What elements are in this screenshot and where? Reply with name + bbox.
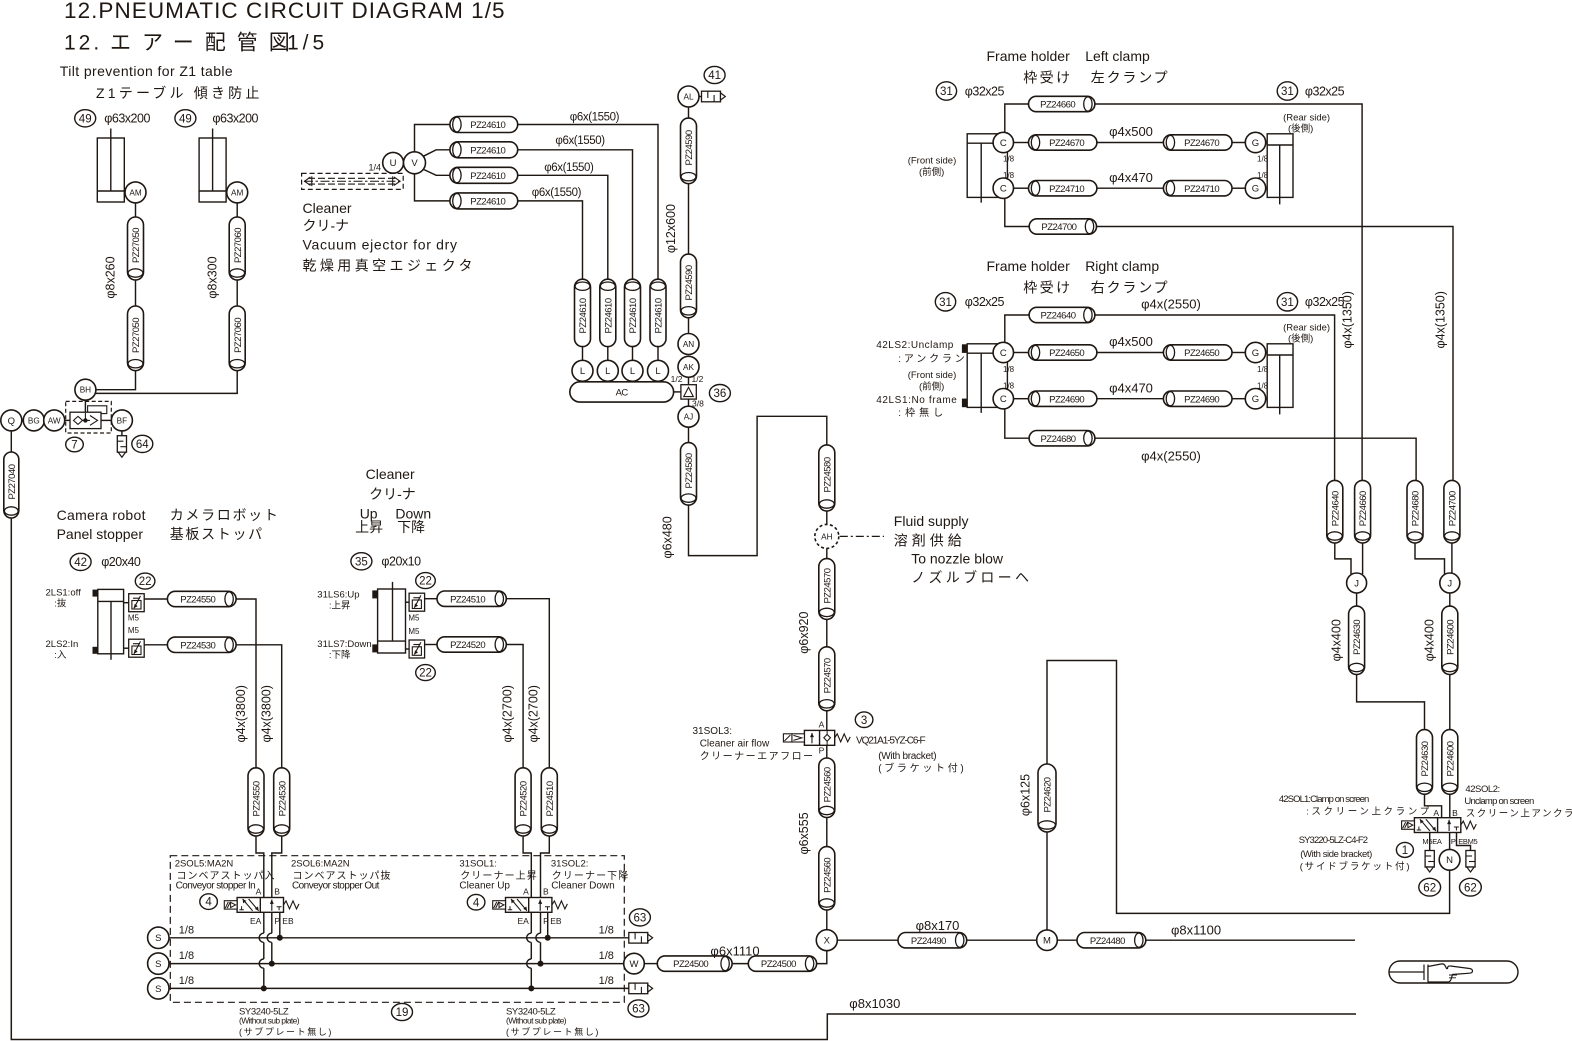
valve 31SOL3 <box>783 730 850 745</box>
tube PZ24680 <box>1029 431 1095 446</box>
wire W to PZ24500 <box>644 963 657 965</box>
svg-text:PZ24490: PZ24490 <box>911 936 946 947</box>
svg-text:φ6x480: φ6x480 <box>661 516 675 558</box>
svg-text:基板ストッパ: 基板ストッパ <box>170 526 264 542</box>
svg-text:(後側): (後側) <box>1288 333 1313 345</box>
wire PZ24650 mid <box>1097 352 1164 354</box>
junction dot P2-rail2 <box>538 961 544 967</box>
wire AW to valve 7 <box>65 419 70 421</box>
wire PZ24660 to trunk1 <box>1095 104 1362 480</box>
wire X to PZ24490 <box>837 939 898 941</box>
wire PZ24710 to G2 <box>1232 187 1245 189</box>
wire PZ24520 down <box>506 645 523 768</box>
rail 3 (EA exhaust) <box>169 987 629 989</box>
svg-text:B: B <box>1452 808 1458 818</box>
svg-text:φ6x(1550): φ6x(1550) <box>532 187 582 199</box>
wire PZ24600 straight <box>1449 675 1451 730</box>
wire PZ24690 to G2r <box>1232 398 1245 400</box>
wire Q-BG <box>22 419 24 421</box>
wire M to PZ24480 <box>1057 939 1077 941</box>
svg-text::入: :入 <box>54 650 67 661</box>
svg-text:(Rear side): (Rear side) <box>1283 323 1330 334</box>
node AL <box>678 86 699 107</box>
node AK <box>678 356 699 377</box>
svg-text:AW: AW <box>48 416 61 425</box>
svg-text:φ4x400: φ4x400 <box>1330 619 1344 661</box>
wire PZ24590 gap <box>688 184 690 254</box>
wire PZ24550v to valve A <box>256 836 264 898</box>
wire PZ24640 to C1r <box>1005 315 1029 342</box>
svg-text:Cleaner air flow: Cleaner air flow <box>700 739 770 750</box>
tube PZ27060 lower <box>229 306 245 371</box>
svg-text:A: A <box>256 887 262 897</box>
wire BH to valve 7 <box>84 400 86 413</box>
tube PZ24530 horizontal <box>167 637 236 652</box>
svg-text:クリ-ナ: クリ-ナ <box>369 486 416 502</box>
silencer 63 #2 <box>629 983 653 994</box>
svg-text:PZ24480: PZ24480 <box>1090 936 1125 947</box>
svg-text:PZ24580: PZ24580 <box>684 453 695 488</box>
wire AJ to PZ24580 <box>688 427 690 442</box>
tube PZ24500 #2 <box>748 956 816 971</box>
svg-text:PZ24560: PZ24560 <box>822 767 833 802</box>
svg-text:φ4x(2700): φ4x(2700) <box>527 685 541 742</box>
node L #2 <box>597 360 618 381</box>
wire col1 to L <box>582 347 584 361</box>
node S #1 <box>148 927 169 948</box>
svg-text:EA: EA <box>250 916 262 926</box>
wire BG-AW <box>43 419 46 421</box>
wire V to tube row2 <box>424 150 450 156</box>
wire PZ24690 mid <box>1097 398 1164 400</box>
tube PZ24650 #1 <box>1029 345 1097 360</box>
svg-text:左クランプ: 左クランプ <box>1091 70 1170 86</box>
node C right2 <box>993 389 1013 409</box>
balloon 22 #3 <box>416 665 436 681</box>
wire C2r to PZ24690 <box>1014 398 1029 400</box>
svg-text:2SOL6:MA2N: 2SOL6:MA2N <box>291 858 350 869</box>
tube PZ24570 lower <box>819 647 835 711</box>
tube PZ24630 #2 <box>1417 730 1433 795</box>
wire PZ24560 gap <box>826 818 828 847</box>
svg-text:下降: 下降 <box>397 519 425 535</box>
tube PZ24570 upper <box>819 559 835 620</box>
wire P to N <box>1449 833 1451 850</box>
svg-text:φ6x555: φ6x555 <box>797 812 811 854</box>
wire PZ24530 down <box>236 645 282 768</box>
svg-text:49: 49 <box>79 113 92 125</box>
svg-text:φ4x(1350): φ4x(1350) <box>1434 291 1448 348</box>
svg-text:φ12x600: φ12x600 <box>664 204 678 253</box>
wire col2 to L <box>607 347 609 361</box>
cylinder 35 (cleaner up/down) <box>372 582 405 653</box>
svg-text:S: S <box>155 933 161 944</box>
svg-text:AJ: AJ <box>684 413 694 422</box>
wire PZ24500 gap <box>732 963 748 965</box>
svg-text:PZ24610: PZ24610 <box>470 145 505 156</box>
tube PZ24610 vertical col1 <box>575 279 591 346</box>
svg-text:Tilt prevention for Z1 table: Tilt prevention for Z1 table <box>60 63 233 79</box>
node AM #1 <box>125 182 146 203</box>
svg-text:M5: M5 <box>128 613 140 622</box>
node BG <box>23 410 44 431</box>
svg-text:62: 62 <box>1423 882 1436 894</box>
svg-text:35: 35 <box>355 556 368 568</box>
valve 42SOL1/42SOL2 (SY3220) <box>1402 818 1477 833</box>
svg-text:S: S <box>155 959 161 970</box>
svg-text:G: G <box>1252 184 1259 195</box>
svg-text:1/8: 1/8 <box>179 950 194 962</box>
svg-text:PZ24690: PZ24690 <box>1049 394 1084 405</box>
wire PZ24700 to trunk2 <box>1097 227 1454 481</box>
svg-text:1/2: 1/2 <box>671 374 683 384</box>
svg-text::スクリーン上クランプ: :スクリーン上クランプ <box>1306 807 1431 818</box>
hand pointer (next page marker) <box>1389 961 1518 983</box>
valve 31SOL1/31SOL2 (SY3240) <box>493 898 568 913</box>
balloon 63 #2 <box>628 1000 649 1017</box>
svg-text:φ20x10: φ20x10 <box>381 555 421 569</box>
svg-text:BF: BF <box>117 416 127 425</box>
svg-text:Cleaner Down: Cleaner Down <box>551 880 614 891</box>
svg-text:PZ24500: PZ24500 <box>673 959 708 970</box>
tube PZ24530 vertical <box>274 768 290 836</box>
node G right2 <box>1245 389 1265 409</box>
tube PZ24560 upper <box>819 758 835 818</box>
svg-text:カメラロボット: カメラロボット <box>170 507 280 523</box>
svg-text:12.PNEUMATIC CIRCUIT DIAGRAM 1: 12.PNEUMATIC CIRCUIT DIAGRAM 1/5 <box>64 0 506 23</box>
svg-text:PZ24700: PZ24700 <box>1041 222 1076 233</box>
node AN <box>678 334 699 355</box>
tube PZ24520 vertical <box>515 768 531 836</box>
svg-text:(Front side): (Front side) <box>908 370 957 381</box>
tube PZ24560 lower <box>819 847 835 910</box>
svg-text:PZ24650: PZ24650 <box>1184 348 1219 359</box>
node J #2 <box>1440 573 1460 593</box>
cylinder 31 left clamp rear <box>1267 134 1293 205</box>
svg-text:PZ24610: PZ24610 <box>470 171 505 182</box>
tube PZ24480 <box>1077 933 1146 948</box>
svg-text:φ4x500: φ4x500 <box>1109 334 1153 349</box>
svg-text:31SOL1:: 31SOL1: <box>459 858 497 869</box>
svg-text:N: N <box>1446 855 1453 866</box>
svg-text::枠無し: :枠無し <box>898 406 947 419</box>
svg-text:S: S <box>155 984 161 995</box>
tube PZ24610 row3 <box>450 167 518 183</box>
silencer 63 #1 <box>629 933 653 944</box>
svg-text:G: G <box>1252 394 1259 405</box>
svg-text:Q: Q <box>8 416 15 427</box>
tube PZ24520 horizontal <box>437 637 506 652</box>
balloon 36 <box>709 385 730 402</box>
svg-text:PZ24640: PZ24640 <box>1040 311 1075 322</box>
wire PZ24480 onward <box>1146 939 1355 941</box>
tube PZ24610 row4 <box>450 193 518 209</box>
svg-text:PZ27050: PZ27050 <box>131 318 142 353</box>
balloon 1 <box>1396 842 1413 857</box>
node L #3 <box>622 360 643 381</box>
svg-text:Camera robot: Camera robot <box>57 507 146 523</box>
wire AM1 to tube <box>135 203 137 217</box>
svg-text:Unclamp on screen: Unclamp on screen <box>1464 796 1534 807</box>
svg-text:φ4x500: φ4x500 <box>1109 124 1153 139</box>
svg-text:EA: EA <box>517 916 529 926</box>
wire EA2 down <box>530 912 532 933</box>
svg-text:U: U <box>390 158 397 169</box>
svg-text:42LS2:Unclamp: 42LS2:Unclamp <box>876 340 954 351</box>
tube PZ24510 horizontal <box>437 591 506 606</box>
wire PZ24510v to valve B <box>541 836 550 898</box>
svg-text:1: 1 <box>1402 845 1408 857</box>
node M <box>1037 930 1058 951</box>
svg-text:AK: AK <box>683 363 694 372</box>
svg-text:Right clamp: Right clamp <box>1085 258 1159 274</box>
svg-text:AL: AL <box>683 93 693 102</box>
svg-text:PZ24610: PZ24610 <box>578 298 589 333</box>
wire PZ24700v to J2 <box>1451 543 1453 574</box>
node BF <box>111 410 132 431</box>
svg-text:PZ24670: PZ24670 <box>1049 138 1084 149</box>
svg-text:Left clamp: Left clamp <box>1085 48 1150 64</box>
tube PZ27040 <box>4 452 19 518</box>
svg-text:L: L <box>580 366 585 377</box>
wire PZ24680v to J2 <box>1415 543 1445 575</box>
svg-text:φ63x200: φ63x200 <box>212 112 258 126</box>
node BH <box>75 379 96 400</box>
svg-text:Vacuum ejector for dry: Vacuum ejector for dry <box>303 237 458 253</box>
svg-text:64: 64 <box>136 439 149 451</box>
svg-text:A: A <box>523 887 529 897</box>
wire PZ24580 to AH <box>826 511 828 524</box>
node J #1 <box>1347 573 1367 593</box>
svg-text:(Without sub plate): (Without sub plate) <box>239 1016 300 1026</box>
svg-text:P: P <box>819 746 825 756</box>
wire PZ24590 to AN <box>688 318 690 334</box>
wire PZ24650 to G1r <box>1232 352 1245 354</box>
svg-text:φ32x25: φ32x25 <box>965 295 1005 309</box>
tube PZ24610 row2 <box>450 142 518 158</box>
wire PZ24630 to valve A <box>1425 794 1442 817</box>
svg-text:PZ27040: PZ27040 <box>7 464 18 499</box>
svg-text:PZ24570: PZ24570 <box>822 658 833 693</box>
svg-text:63: 63 <box>632 1004 645 1016</box>
tube PZ24610 row1 <box>450 117 518 133</box>
wire PZ24570 gap <box>826 619 828 646</box>
silencer 62 #1 <box>1425 851 1434 873</box>
wire PZ24500 to X <box>817 951 827 964</box>
balloon 31 #2 <box>1277 82 1297 100</box>
svg-text:Panel stopper: Panel stopper <box>57 526 144 542</box>
svg-text:φ8x1100: φ8x1100 <box>1171 923 1221 938</box>
svg-text:AM: AM <box>129 188 141 197</box>
wire PZ27040 to bottom supply rail <box>11 518 1356 1040</box>
svg-text:PZ24610: PZ24610 <box>470 197 505 208</box>
rail 2 (P supply) <box>169 963 624 965</box>
svg-text:φ32x25: φ32x25 <box>1305 295 1345 309</box>
silencer 62 #2 <box>1466 851 1475 873</box>
balloon 31 #4 <box>1277 293 1297 311</box>
tube PZ24710 #1 <box>1029 181 1097 196</box>
svg-text:PZ24600: PZ24600 <box>1445 620 1456 655</box>
svg-text:31: 31 <box>1281 297 1294 309</box>
wire EA to silencer 62a <box>1429 833 1431 851</box>
svg-text:J: J <box>1447 578 1452 589</box>
node C right1 <box>993 342 1013 362</box>
svg-text:PZ24680: PZ24680 <box>1040 434 1075 445</box>
svg-text:乾燥用真空エジェクタ: 乾燥用真空エジェクタ <box>303 258 476 274</box>
svg-text:(サブプレート無し): (サブプレート無し) <box>506 1026 600 1037</box>
wire BF to silencer 64 <box>121 431 123 436</box>
wire AC to check valve 36 <box>674 391 681 393</box>
svg-text:PZ24690: PZ24690 <box>1184 394 1219 405</box>
wire PZ24640v to J1 <box>1335 543 1351 574</box>
silencer 41 <box>702 91 726 102</box>
wire C1r to PZ24650 <box>1014 352 1029 354</box>
tube PZ24700 vertical <box>1444 480 1460 543</box>
svg-text:G: G <box>1252 138 1259 149</box>
wire PZ24490 to M <box>967 939 1037 941</box>
wire PZ24660v to J1 <box>1362 543 1364 574</box>
tube PZ24640 vertical <box>1327 480 1343 543</box>
node C left2 <box>993 178 1013 198</box>
tube PZ24550 horizontal <box>167 591 236 606</box>
balloon 42 <box>70 553 91 570</box>
svg-text::下降: :下降 <box>329 649 351 661</box>
svg-text:Cleaner Up: Cleaner Up <box>459 880 510 891</box>
wire AL to silencer 41 <box>699 96 702 98</box>
balloon 35 <box>351 553 372 570</box>
tube PZ24590 lower <box>681 254 697 318</box>
svg-text:A: A <box>1433 808 1439 818</box>
svg-text:(Without sub plate): (Without sub plate) <box>506 1016 567 1026</box>
svg-text:PZ24660: PZ24660 <box>1040 100 1075 111</box>
balloon 49 #1 <box>75 110 96 127</box>
wire sc a to PZ24550 <box>144 598 167 600</box>
svg-text:2SOL5:MA2N: 2SOL5:MA2N <box>175 858 234 869</box>
balloon 49 #2 <box>175 110 196 127</box>
tube PZ24490 <box>898 933 967 948</box>
silencer 64 <box>117 436 126 458</box>
svg-text:φ8x170: φ8x170 <box>916 918 960 933</box>
svg-text:φ6x(1550): φ6x(1550) <box>544 162 594 174</box>
manifold dashed box <box>170 856 624 1003</box>
svg-text:PZ24550: PZ24550 <box>180 595 215 606</box>
svg-text:AM: AM <box>231 188 243 197</box>
balloon 4 #1 <box>200 894 218 910</box>
svg-text:PZ24610: PZ24610 <box>654 298 665 333</box>
svg-text:PZ24650: PZ24650 <box>1049 348 1084 359</box>
svg-text:AC: AC <box>616 388 629 399</box>
svg-text:12.: 12. <box>64 32 102 55</box>
wire between PZ27050 tubes <box>135 280 137 306</box>
svg-text:BH: BH <box>80 386 91 395</box>
svg-text:φ4x(3800): φ4x(3800) <box>234 685 248 742</box>
balloon 4 #2 <box>467 894 485 910</box>
svg-text:φ63x200: φ63x200 <box>104 112 150 126</box>
node X <box>816 930 837 951</box>
svg-text:PZ24710: PZ24710 <box>1184 184 1219 195</box>
svg-text:PZ24590: PZ24590 <box>684 130 695 165</box>
balloon 62 #2 <box>1460 878 1482 896</box>
cylinder 31 right clamp front <box>962 344 1008 413</box>
wire col4 to L <box>657 347 659 361</box>
tube PZ24580 right <box>819 445 835 511</box>
svg-text:31LS6:Up: 31LS6:Up <box>317 589 359 600</box>
wire EB2 down <box>547 912 549 938</box>
balloon 62 #1 <box>1419 878 1441 896</box>
svg-text:SY3220-5LZ-C4-F2: SY3220-5LZ-C4-F2 <box>1299 835 1368 846</box>
svg-text:L: L <box>605 366 610 377</box>
svg-text:(Rear side): (Rear side) <box>1283 113 1330 124</box>
node L #4 <box>648 360 669 381</box>
svg-text:62: 62 <box>1464 882 1477 894</box>
wire sc c to PZ24510 <box>425 598 437 600</box>
svg-text:(サイドブラケット付): (サイドブラケット付) <box>1300 861 1412 873</box>
tube PZ24500 #1 <box>657 956 732 971</box>
wire PZ24710 mid <box>1097 187 1164 189</box>
node C left1 <box>993 132 1013 152</box>
svg-text:31: 31 <box>940 86 953 98</box>
tube PZ24610 vertical col3 <box>625 279 641 346</box>
wire sc b to PZ24530 <box>144 644 167 646</box>
svg-text:PZ24610: PZ24610 <box>603 298 614 333</box>
svg-text:L: L <box>655 366 660 377</box>
wire row4 to column1 <box>518 201 583 279</box>
svg-text:φ32x25: φ32x25 <box>965 84 1005 98</box>
svg-text:M5EA: M5EA <box>1422 837 1442 846</box>
tube PZ24600 #2 <box>1442 730 1458 795</box>
svg-text:PZ24710: PZ24710 <box>1049 184 1084 195</box>
svg-text:φ8x260: φ8x260 <box>104 256 118 298</box>
svg-text:(ブラケット付): (ブラケット付) <box>878 762 966 775</box>
wire PZ27060 to BH <box>96 371 238 394</box>
svg-text:PZ24610: PZ24610 <box>628 298 639 333</box>
svg-text:22: 22 <box>139 576 152 588</box>
tube PZ24630 #1 <box>1349 606 1365 674</box>
svg-text:φ8x1030: φ8x1030 <box>849 996 900 1011</box>
balloon 22 #2 <box>416 573 436 589</box>
svg-text:PZ24550: PZ24550 <box>252 781 263 816</box>
svg-text:C: C <box>1000 138 1007 149</box>
svg-text:(サブプレート無し): (サブプレート無し) <box>239 1026 333 1037</box>
svg-text:ノズルブローヘ: ノズルブローヘ <box>911 570 1032 586</box>
wire J2 to PZ24600 <box>1449 593 1451 606</box>
wire cyl to sc b <box>124 647 129 649</box>
speed controller 22a <box>129 594 145 612</box>
svg-text:PZ27060: PZ27060 <box>233 318 244 353</box>
svg-text:1/5: 1/5 <box>287 32 328 55</box>
svg-text:PZ24680: PZ24680 <box>1411 491 1422 526</box>
svg-text:スクリーン上アンクランプ: スクリーン上アンクランプ <box>1466 809 1572 820</box>
wire V to tube row4 <box>415 174 450 201</box>
svg-text:φ6x920: φ6x920 <box>797 611 811 653</box>
tube PZ24550 vertical <box>248 768 264 836</box>
tube PZ24690 #1 <box>1029 391 1097 406</box>
node S #3 <box>148 978 169 999</box>
svg-text:φ8x300: φ8x300 <box>206 256 220 298</box>
svg-text:PZ24530: PZ24530 <box>180 640 215 651</box>
svg-text:G: G <box>1252 348 1259 359</box>
wire PZ24520v to valve A <box>523 836 531 898</box>
manifold AC <box>570 382 674 402</box>
svg-text:M5: M5 <box>408 627 420 636</box>
svg-text:枠受け: 枠受け <box>1023 70 1072 86</box>
svg-text:42: 42 <box>74 557 87 569</box>
svg-text:7: 7 <box>71 440 77 452</box>
tube PZ24670 #2 <box>1163 135 1232 150</box>
svg-text:EB: EB <box>282 916 294 926</box>
wire C2 to PZ24710 <box>1014 187 1029 189</box>
tube PZ24590 upper <box>681 118 697 184</box>
